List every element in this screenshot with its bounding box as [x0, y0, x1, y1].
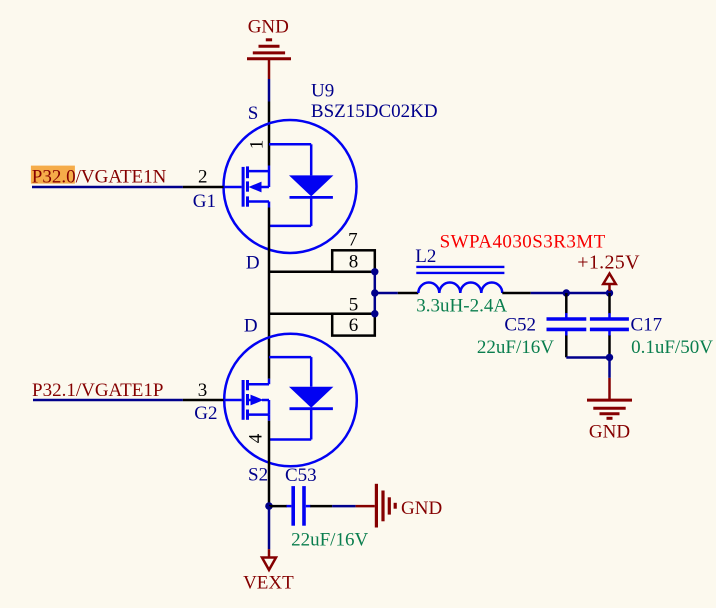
- pin name S: [248, 103, 259, 124]
- designator L2: [415, 246, 436, 267]
- source joint lower MOSFET: [248, 400, 270, 421]
- net label P32.0/VGATE1N (highlighted P32.0): [31, 166, 167, 188]
- pin name G2: [194, 403, 217, 424]
- wire GND to U9 pin 1: [268, 79, 271, 102]
- body diode upper MOSFET: [269, 144, 333, 226]
- channel segments upper MOSFET: [246, 166, 249, 206]
- value 22uF/16V (C52): [477, 337, 554, 358]
- junction dot drain/pin8: [371, 268, 378, 275]
- pins 5/6 loop box: [332, 314, 375, 336]
- svg-text:+1.25V: +1.25V: [577, 252, 640, 274]
- pin 2 (G1) lead: [183, 186, 242, 189]
- svg-text:S2: S2: [248, 465, 268, 486]
- junction dot S2/C53: [265, 502, 273, 510]
- value 22uF/16V (C53): [291, 530, 368, 551]
- wire net P32.1/VGATE1P: [33, 399, 183, 402]
- power port VEXT: [243, 558, 294, 594]
- pin number 4 (rotated): [246, 433, 267, 443]
- wire lower drain to pin 5: [269, 312, 375, 315]
- pin 2 lead of L2: [502, 292, 530, 295]
- wire drain bus to L2: [375, 292, 398, 295]
- svg-text:SWPA4030S3R3MT: SWPA4030S3R3MT: [440, 231, 606, 252]
- capacitor C53: [293, 486, 304, 526]
- transistor Q-B of U9 (lower MOSFET circle): [224, 334, 357, 467]
- pin 1 lead of L2: [398, 292, 419, 295]
- ground GND (right-facing power port): [376, 484, 442, 528]
- svg-text:P32.0/VGATE1N: P32.0/VGATE1N: [32, 166, 167, 187]
- svg-text:8: 8: [349, 251, 359, 272]
- svg-text:G2: G2: [194, 403, 217, 424]
- svg-text:22uF/16V: 22uF/16V: [291, 530, 368, 551]
- net label P32.1/VGATE1P: [32, 380, 163, 401]
- svg-text:3: 3: [198, 380, 208, 401]
- svg-text:P32.1/VGATE1P: P32.1/VGATE1P: [32, 380, 163, 401]
- wire net P32.0/VGATE1N: [32, 186, 183, 189]
- svg-text:S: S: [248, 103, 259, 124]
- pin number 5: [349, 295, 359, 316]
- svg-text:C53: C53: [285, 465, 317, 486]
- wire drain bus vertical: [374, 272, 377, 314]
- gate plate upper MOSFET: [242, 167, 245, 207]
- svg-text:BSZ15DC02KD: BSZ15DC02KD: [311, 101, 438, 122]
- wire C53 to GND: [332, 505, 375, 508]
- pin number 7: [348, 229, 358, 250]
- wire L2 to +1.25V rail: [531, 292, 610, 295]
- pin 1 lead of C53: [269, 505, 291, 508]
- capacitor C17: [590, 293, 629, 357]
- svg-text:6: 6: [349, 315, 359, 336]
- drain connect lower MOSFET: [248, 379, 270, 385]
- pin 2 lead of C53: [306, 505, 332, 508]
- svg-text:2: 2: [198, 166, 208, 187]
- pin name S2: [248, 465, 268, 486]
- comment BSZ15DC02KD: [311, 101, 438, 122]
- ground GND (bottom right power port): [587, 400, 632, 442]
- svg-text:3.3uH-2.4A: 3.3uH-2.4A: [416, 296, 507, 317]
- pin 3 (G2) lead: [183, 399, 242, 402]
- power port +1.25V: [577, 252, 640, 292]
- svg-text:GND: GND: [589, 422, 630, 443]
- svg-text:GND: GND: [401, 498, 442, 519]
- junction dot C52 tap: [563, 289, 570, 296]
- body arrow upper MOSFET: [249, 182, 270, 193]
- value 3.3uH-2.4A: [416, 296, 507, 317]
- wire caps bottom to GND: [608, 357, 611, 400]
- svg-text:C52: C52: [504, 315, 536, 336]
- junction dot C17 tap: [606, 289, 613, 296]
- pin number 2: [198, 166, 208, 187]
- body arrow lower MOSFET: [248, 395, 270, 406]
- junction dot caps bottom: [606, 354, 613, 361]
- junction dot drain/pin5: [371, 310, 378, 317]
- svg-text:7: 7: [348, 229, 358, 250]
- svg-text:0.1uF/50V: 0.1uF/50V: [631, 337, 713, 358]
- svg-text:D: D: [244, 316, 258, 337]
- junction dot drain mid: [371, 289, 378, 296]
- pin number 8: [349, 251, 359, 272]
- designator U9: [311, 81, 334, 102]
- svg-text:G1: G1: [193, 191, 216, 212]
- wire S2 net to VEXT: [268, 506, 271, 557]
- pin name G1: [193, 191, 216, 212]
- source joint upper MOSFET: [248, 166, 270, 188]
- designator C53: [285, 465, 317, 486]
- capacitor C52: [547, 293, 587, 357]
- svg-text:22uF/16V: 22uF/16V: [477, 337, 554, 358]
- svg-text:VEXT: VEXT: [243, 573, 294, 594]
- svg-text:D: D: [246, 253, 260, 274]
- svg-text:U9: U9: [311, 81, 334, 102]
- designator C17: [631, 315, 663, 336]
- svg-text:GND: GND: [248, 17, 289, 38]
- pin D (drain) lead upper MOSFET: [268, 208, 271, 379]
- pin 1 (S) of U9, black pin lead: [268, 102, 271, 166]
- pin number 3: [198, 380, 208, 401]
- gate plate lower MOSFET: [242, 380, 245, 420]
- value 0.1uF/50V (C17): [631, 337, 713, 358]
- comment SWPA4030S3R3MT: [440, 231, 606, 252]
- pin number 6: [349, 315, 359, 336]
- ground GND (top power port): [247, 17, 291, 79]
- wire C52 bottom to C17 bottom: [566, 356, 609, 359]
- svg-text:4: 4: [246, 433, 267, 443]
- pins 7/8 loop box: [332, 250, 375, 271]
- transistor Q-A of U9 (upper MOSFET circle): [224, 120, 357, 253]
- channel segments lower MOSFET: [246, 380, 249, 420]
- designator C52: [504, 315, 536, 336]
- wire upper drain to pin 8: [269, 271, 375, 274]
- body diode lower MOSFET: [269, 357, 333, 439]
- pin number 1 (rotated): [247, 140, 268, 150]
- svg-text:L2: L2: [415, 246, 436, 267]
- drain connect upper MOSFET: [248, 202, 270, 208]
- inductor L2: [416, 267, 504, 293]
- pin name D (lower): [244, 316, 258, 337]
- svg-text:1: 1: [247, 140, 268, 150]
- pin name D (upper): [246, 253, 260, 274]
- svg-text:C17: C17: [631, 315, 663, 336]
- pin 4 (S2) lead: [268, 421, 271, 506]
